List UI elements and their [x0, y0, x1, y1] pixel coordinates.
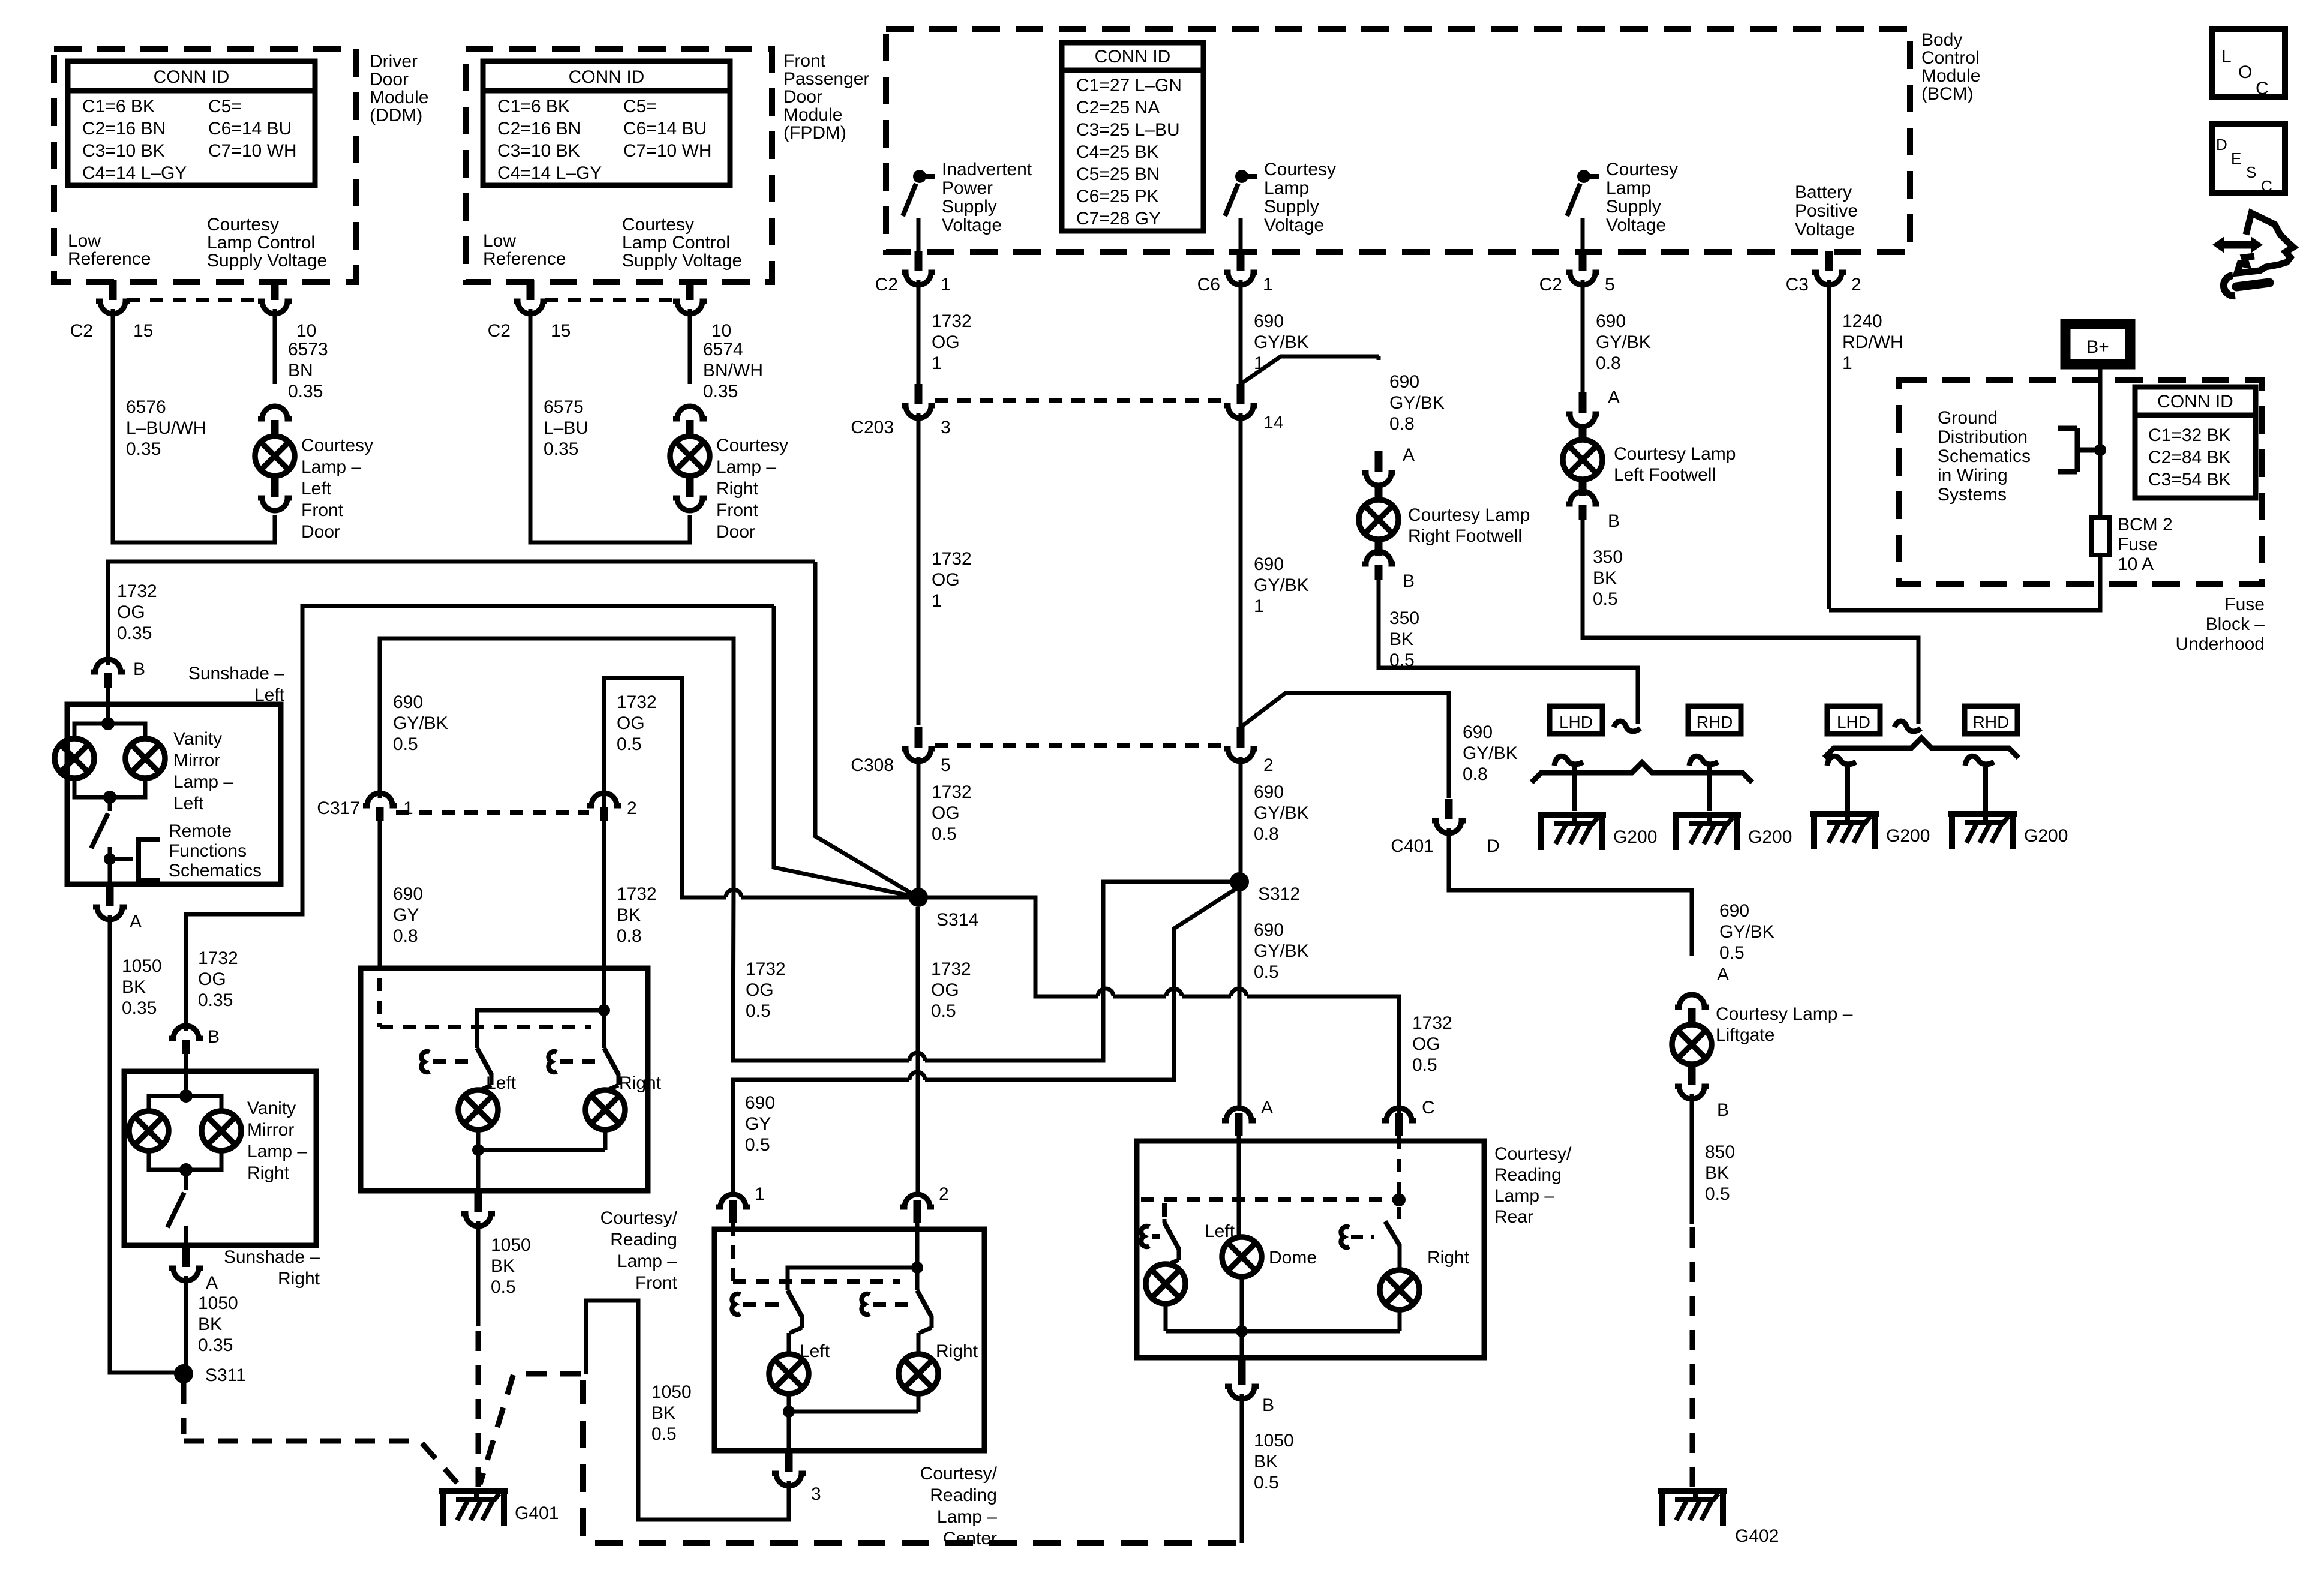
svg-text:C: C — [1422, 1098, 1435, 1118]
svg-text:Power: Power — [942, 178, 993, 198]
ring terminal LHD — [1827, 756, 1856, 766]
fuse BCM 2 10A — [2092, 517, 2109, 555]
rear lamps common rail — [1166, 1329, 1400, 1334]
H2 wire (S312 diagonal to center pin 1) — [925, 887, 1239, 1080]
svg-text:S311: S311 — [205, 1365, 246, 1385]
svg-text:GY/BK: GY/BK — [1254, 332, 1309, 352]
svg-text:L–BU: L–BU — [544, 418, 588, 438]
sunshade right box — [124, 1071, 316, 1245]
svg-text:Courtesy/: Courtesy/ — [920, 1464, 998, 1484]
ring terminal RHD — [1965, 756, 1994, 766]
svg-text:Voltage: Voltage — [1606, 215, 1666, 235]
svg-text:Lamp –: Lamp – — [247, 1142, 307, 1161]
center left switch and lamp — [786, 1287, 790, 1290]
svg-text:0.35: 0.35 — [198, 990, 233, 1010]
svg-text:C6=14 BU: C6=14 BU — [623, 119, 707, 139]
svg-text:Voltage: Voltage — [942, 215, 1002, 235]
svg-text:0.5: 0.5 — [746, 1001, 771, 1021]
svg-text:Front: Front — [783, 51, 826, 71]
BCM pin C6-1 connector — [1224, 272, 1257, 285]
center right switch and lamp — [915, 1287, 920, 1290]
svg-text:Right: Right — [716, 479, 759, 499]
sunshade left box — [67, 704, 281, 884]
rail B (to sunshade right) — [186, 606, 774, 1031]
branch wire 690 GY/BK to right footwell — [1241, 356, 1379, 384]
svg-text:Supply Voltage: Supply Voltage — [207, 251, 327, 271]
svg-text:1732: 1732 — [198, 948, 238, 968]
svg-text:Supply: Supply — [942, 197, 997, 217]
svg-text:Supply Voltage: Supply Voltage — [622, 251, 742, 271]
svg-text:GY/BK: GY/BK — [1719, 922, 1774, 942]
svg-text:BN/WH: BN/WH — [703, 361, 763, 380]
svg-text:2: 2 — [1851, 275, 1861, 295]
svg-text:(DDM): (DDM) — [370, 106, 422, 125]
svg-text:1050: 1050 — [651, 1382, 692, 1402]
svg-text:S314: S314 — [936, 910, 978, 930]
svg-text:L: L — [2221, 47, 2232, 67]
courtesy/reading lamp center box — [714, 1229, 984, 1451]
svg-text:C2=84 BK: C2=84 BK — [2148, 448, 2231, 467]
center box internal feed — [915, 1223, 920, 1287]
svg-text:1: 1 — [1842, 353, 1852, 373]
connector A sunshade left — [106, 887, 114, 901]
svg-text:Lamp –: Lamp – — [173, 772, 233, 792]
svg-text:Remote: Remote — [169, 821, 232, 841]
lamp courtesy lamp left footwell — [1563, 440, 1602, 479]
svg-text:Front: Front — [301, 500, 344, 520]
svg-text:5: 5 — [941, 755, 951, 775]
lamp courtesy lamp liftgate — [1675, 995, 1709, 1007]
svg-text:Courtesy Lamp: Courtesy Lamp — [1614, 444, 1736, 464]
center pin 1 connector — [729, 1200, 737, 1214]
center box output wire — [787, 1412, 791, 1451]
DDM CONN ID table — [68, 61, 315, 185]
svg-text:2: 2 — [1263, 755, 1274, 775]
svg-text:0.5: 0.5 — [745, 1135, 770, 1155]
front right switch and lamp — [602, 1044, 606, 1048]
front box internal feed — [602, 970, 606, 1044]
BCM pin C2-5 connector — [1566, 272, 1599, 285]
connector C308 dashed line — [935, 743, 1224, 748]
rear pin C connector — [1395, 1113, 1403, 1128]
svg-text:1050: 1050 — [198, 1293, 238, 1313]
svg-text:GY: GY — [393, 905, 419, 925]
svg-text:1050: 1050 — [1254, 1431, 1294, 1451]
svg-text:A: A — [1717, 965, 1729, 984]
svg-text:Mirror: Mirror — [247, 1120, 294, 1140]
wire below S314 to center pin 2 — [916, 907, 920, 1197]
courtesy/reading lamp front box — [361, 968, 648, 1191]
svg-text:BK: BK — [1389, 629, 1413, 649]
svg-text:Courtesy: Courtesy — [207, 215, 279, 235]
svg-text:Fuse: Fuse — [2224, 595, 2265, 614]
svg-text:0.5: 0.5 — [931, 1001, 956, 1021]
svg-text:BCM 2: BCM 2 — [2118, 515, 2173, 535]
svg-text:C3=10 BK: C3=10 BK — [82, 141, 165, 161]
wire 690 GY/BK 1 (C6-1 to C203-14) — [1239, 280, 1243, 384]
svg-text:Door: Door — [783, 87, 822, 107]
svg-text:D: D — [1487, 836, 1500, 856]
svg-text:in Wiring: in Wiring — [1938, 466, 2008, 485]
fuse block CONN ID table — [2135, 387, 2256, 498]
svg-text:BK: BK — [1254, 1452, 1278, 1472]
svg-text:A: A — [1403, 445, 1415, 465]
svg-text:0.8: 0.8 — [1254, 824, 1279, 844]
svg-text:C7=28 GY: C7=28 GY — [1076, 209, 1161, 229]
connector C308 pin 5 — [915, 727, 923, 744]
svg-text:Lamp Control: Lamp Control — [207, 233, 315, 253]
svg-text:1: 1 — [1254, 596, 1264, 616]
svg-text:Door: Door — [301, 522, 340, 542]
svg-text:E: E — [2231, 149, 2241, 167]
svg-text:350: 350 — [1593, 547, 1623, 567]
svg-text:Right: Right — [278, 1269, 320, 1289]
svg-text:Front: Front — [716, 500, 759, 520]
rear box linkage dashes — [1397, 1136, 1401, 1194]
wire 1732 OG 0.5 riser from C317-2 — [604, 678, 726, 897]
svg-text:Courtesy: Courtesy — [1606, 160, 1678, 179]
svg-text:OG: OG — [931, 980, 959, 1000]
svg-text:RHD: RHD — [1973, 713, 2010, 731]
svg-text:350: 350 — [1389, 608, 1419, 628]
wire from fuse block to C3-2 — [1829, 555, 2100, 610]
sunshade left switch — [108, 797, 112, 811]
svg-text:Block –: Block – — [2206, 614, 2265, 634]
branch wire 690 GY/BK to C401 — [1241, 693, 1449, 798]
wire 1050 BK 0.35 to S311 — [184, 1276, 188, 1373]
svg-text:B: B — [1403, 571, 1415, 591]
connector C203 dashed line — [935, 398, 1224, 403]
svg-text:1: 1 — [941, 275, 951, 295]
svg-text:Courtesy/: Courtesy/ — [600, 1208, 678, 1228]
rear left switch and lamp — [1163, 1219, 1167, 1223]
svg-text:690: 690 — [1389, 372, 1419, 392]
svg-text:0.35: 0.35 — [703, 382, 738, 401]
connector C317 dashed line — [396, 810, 589, 815]
BCM pin C3-2 connector — [1812, 272, 1846, 285]
svg-text:LHD: LHD — [1559, 713, 1593, 731]
svg-text:Passenger: Passenger — [783, 69, 869, 89]
svg-text:Voltage: Voltage — [1795, 220, 1855, 239]
body control module BCM box — [886, 29, 1910, 252]
svg-text:1: 1 — [403, 798, 413, 818]
connector C317 pin 2 — [587, 793, 621, 806]
BCM pin C2-1 connector — [902, 272, 935, 285]
svg-text:690: 690 — [1719, 901, 1749, 921]
svg-text:Inadvertent: Inadvertent — [942, 160, 1032, 179]
svg-text:Low: Low — [68, 231, 101, 251]
ground G200 d — [1948, 811, 2017, 817]
svg-text:Battery: Battery — [1795, 182, 1852, 202]
svg-text:1732: 1732 — [932, 311, 972, 331]
long dashed wire to G401 — [583, 1380, 1236, 1543]
svg-text:Module: Module — [1921, 66, 1980, 86]
svg-text:C4=25 BK: C4=25 BK — [1076, 142, 1159, 162]
wire 1732 OG 1 (C2-1 to C203-3) — [917, 280, 921, 396]
lamp courtesy lamp left front door — [258, 406, 292, 419]
svg-text:CONN ID: CONN ID — [1095, 47, 1171, 67]
wire 1050 BK 0.5 from center box to G401 — [586, 1301, 789, 1520]
svg-text:0.5: 0.5 — [1593, 589, 1618, 609]
svg-text:B+: B+ — [2086, 337, 2109, 357]
front lamps common rail — [472, 1144, 484, 1156]
svg-text:C6: C6 — [1197, 275, 1220, 295]
svg-text:OG: OG — [617, 713, 645, 733]
svg-text:Supply: Supply — [1606, 197, 1661, 217]
wire 1732 BK 0.8 (C317-2 into front lamp box) — [602, 821, 606, 970]
ground G401 — [439, 1488, 508, 1494]
vanity mirror lamp left pair — [101, 717, 115, 730]
svg-text:Schematics: Schematics — [1938, 446, 2031, 466]
svg-text:B: B — [133, 659, 145, 679]
svg-text:G200: G200 — [2024, 826, 2068, 846]
wire 1050 BK 0.35 down to S311 — [110, 915, 184, 1373]
svg-text:C: C — [2256, 79, 2269, 98]
svg-text:Right Footwell: Right Footwell — [1408, 526, 1522, 546]
svg-text:C308: C308 — [851, 755, 894, 775]
svg-text:C4=14 L–GY: C4=14 L–GY — [82, 163, 187, 183]
hops on H1 — [909, 1053, 925, 1061]
svg-text:C7=10 WH: C7=10 WH — [623, 141, 712, 161]
vertical from rail B into S314 — [774, 606, 918, 897]
svg-text:G200: G200 — [1613, 827, 1657, 847]
svg-text:6573: 6573 — [288, 340, 328, 359]
svg-text:690: 690 — [1254, 920, 1284, 940]
svg-text:0.5: 0.5 — [1254, 962, 1279, 982]
svg-text:690: 690 — [1254, 782, 1284, 802]
svg-text:690: 690 — [393, 884, 423, 904]
rear pin A connector — [1235, 1113, 1243, 1128]
connector A sunshade right — [182, 1248, 190, 1262]
svg-text:14: 14 — [1263, 413, 1283, 433]
svg-text:1050: 1050 — [491, 1235, 531, 1255]
svg-text:CONN ID: CONN ID — [2157, 392, 2233, 412]
svg-text:C: C — [2261, 177, 2272, 195]
wire 690 GY/BK 1 (C203-14 to C308-2) — [1239, 413, 1243, 727]
svg-text:GY/BK: GY/BK — [393, 713, 448, 733]
svg-text:0.35: 0.35 — [198, 1335, 233, 1355]
svg-text:C317: C317 — [317, 798, 360, 818]
wire 690 GY/BK 0.8 (C308-2 to S312) — [1239, 757, 1243, 882]
left footwell feed 690 GY/BK 0.8 — [1581, 280, 1585, 396]
ground G200 c — [1810, 811, 1879, 817]
svg-text:Left: Left — [1205, 1221, 1235, 1241]
BCM inadvertent power switch — [913, 170, 926, 183]
LOC icon — [2212, 29, 2285, 97]
svg-text:1240: 1240 — [1842, 311, 1882, 331]
rail A 1732 OG 0.35 (to sunshade left) — [108, 562, 815, 665]
svg-text:Fuse: Fuse — [2118, 535, 2158, 554]
svg-text:3: 3 — [941, 418, 951, 437]
svg-text:Lamp: Lamp — [1264, 178, 1309, 198]
svg-text:Vanity: Vanity — [247, 1098, 296, 1118]
svg-text:10 A: 10 A — [2118, 554, 2154, 574]
lamp courtesy lamp right footwell — [1359, 500, 1398, 539]
courtesy/reading lamp rear box — [1137, 1141, 1484, 1358]
svg-text:Driver: Driver — [370, 52, 418, 71]
svg-text:GY: GY — [745, 1114, 771, 1134]
ground G402 — [1658, 1488, 1727, 1494]
front passenger door module FPDM box — [466, 49, 772, 282]
svg-text:15: 15 — [551, 321, 571, 341]
wire 850 BK 0.5 — [1690, 1094, 1694, 1224]
driver door module DDM box — [54, 49, 356, 282]
svg-text:690: 690 — [1254, 311, 1284, 331]
svg-text:BN: BN — [288, 361, 313, 380]
svg-text:CONN ID: CONN ID — [154, 67, 230, 87]
svg-text:Module: Module — [370, 88, 428, 107]
svg-text:Lamp –: Lamp – — [716, 457, 776, 477]
svg-text:B: B — [1608, 511, 1620, 531]
svg-text:GY/BK: GY/BK — [1389, 393, 1445, 413]
svg-text:1732: 1732 — [932, 782, 972, 802]
svg-text:Functions: Functions — [169, 841, 247, 861]
svg-text:GY/BK: GY/BK — [1254, 575, 1309, 595]
svg-text:1: 1 — [755, 1184, 765, 1204]
front left switch and lamp — [475, 1044, 479, 1048]
svg-text:OG: OG — [1412, 1034, 1440, 1054]
svg-text:2: 2 — [627, 798, 637, 818]
svg-text:0.5: 0.5 — [651, 1424, 677, 1444]
svg-text:C1=27 L–GN: C1=27 L–GN — [1076, 76, 1182, 95]
svg-text:Right: Right — [936, 1341, 978, 1361]
dashed wire to G402 — [1690, 1227, 1695, 1489]
svg-text:L–BU/WH: L–BU/WH — [126, 418, 206, 438]
svg-text:Front: Front — [635, 1273, 678, 1293]
svg-text:C5=: C5= — [208, 97, 242, 116]
wire end curl — [1614, 721, 1640, 731]
svg-text:Left: Left — [486, 1073, 517, 1093]
svg-text:GY/BK: GY/BK — [1596, 332, 1651, 352]
hops on 1661 rail — [1098, 989, 1113, 996]
svg-text:(FPDM): (FPDM) — [783, 123, 846, 143]
svg-text:Low: Low — [483, 231, 516, 251]
svg-text:B: B — [208, 1027, 220, 1047]
svg-text:G402: G402 — [1735, 1526, 1779, 1546]
svg-text:10: 10 — [296, 321, 316, 341]
svg-text:0.35: 0.35 — [544, 439, 578, 459]
svg-text:Voltage: Voltage — [1264, 215, 1324, 235]
svg-text:690: 690 — [1596, 311, 1626, 331]
svg-text:Reference: Reference — [483, 249, 566, 269]
svg-text:A: A — [206, 1273, 218, 1293]
svg-text:0.35: 0.35 — [288, 382, 323, 401]
svg-text:1732: 1732 — [931, 959, 971, 979]
svg-text:Right: Right — [619, 1073, 662, 1093]
svg-text:C5=25 BN: C5=25 BN — [1076, 164, 1160, 184]
svg-text:GY/BK: GY/BK — [1254, 803, 1309, 823]
DDM C2 pin 15 connector — [109, 280, 117, 296]
svg-text:0.5: 0.5 — [393, 734, 418, 754]
lamp courtesy lamp right front door — [673, 406, 707, 419]
svg-text:1732: 1732 — [932, 549, 972, 569]
DDM connector C2 dashed line — [127, 298, 260, 302]
H1 wire (V1 to S312 riser) — [733, 889, 909, 1061]
svg-text:OG: OG — [198, 969, 226, 989]
left footwell A connector — [1579, 392, 1587, 409]
svg-text:0.5: 0.5 — [1705, 1184, 1730, 1204]
svg-text:C1=6 BK: C1=6 BK — [82, 97, 155, 116]
arrow and wrench icon — [2212, 236, 2263, 253]
svg-text:0.8: 0.8 — [617, 926, 642, 946]
svg-text:1732: 1732 — [617, 692, 657, 712]
svg-text:0.8: 0.8 — [393, 926, 418, 946]
svg-text:Control: Control — [1921, 48, 1980, 68]
svg-text:Lamp –: Lamp – — [617, 1251, 677, 1271]
fuse block dashed box — [1899, 380, 2262, 584]
svg-text:BK: BK — [1705, 1163, 1729, 1183]
svg-text:Rear: Rear — [1494, 1207, 1533, 1227]
svg-text:690: 690 — [393, 692, 423, 712]
svg-text:(BCM): (BCM) — [1921, 84, 1974, 104]
svg-text:0.35: 0.35 — [117, 623, 152, 643]
svg-text:Mirror: Mirror — [173, 751, 220, 770]
connector C203 pin 14 — [1237, 384, 1245, 401]
svg-text:C2: C2 — [875, 275, 898, 295]
svg-text:C1=32 BK: C1=32 BK — [2148, 425, 2231, 445]
svg-text:690: 690 — [745, 1093, 775, 1113]
sunshade right switch — [184, 1170, 188, 1190]
wire 690 GY 0.8 (C317-1 into front lamp box) — [378, 821, 382, 968]
svg-text:0.8: 0.8 — [1389, 414, 1415, 434]
svg-text:C6=14 BU: C6=14 BU — [208, 119, 292, 139]
wire end curl — [1894, 721, 1921, 731]
connector C308 pin 2 — [1237, 727, 1245, 744]
svg-text:Module: Module — [783, 105, 842, 125]
svg-text:Ground: Ground — [1938, 408, 1998, 428]
dashed wire S311 to G401 — [184, 1383, 457, 1483]
BCM CONN ID table — [1062, 43, 1203, 231]
svg-text:Courtesy: Courtesy — [301, 436, 373, 455]
svg-text:OG: OG — [117, 602, 145, 622]
DESC icon — [2212, 124, 2285, 193]
RHD box — [1688, 706, 1741, 734]
wire 1732 OG 1 (C203-3 to C308-5) — [917, 413, 921, 725]
vertical from rail A into S314 — [815, 562, 918, 897]
svg-text:C1=6 BK: C1=6 BK — [497, 97, 570, 116]
svg-text:Left: Left — [301, 479, 332, 499]
remote functions tap — [110, 839, 160, 880]
svg-text:0.5: 0.5 — [617, 734, 642, 754]
svg-text:10: 10 — [711, 321, 731, 341]
rear right switch and lamp — [1385, 1221, 1400, 1245]
vanity mirror lamp right pair — [179, 1089, 193, 1103]
svg-text:Vanity: Vanity — [173, 729, 222, 749]
svg-text:OG: OG — [932, 803, 960, 823]
center box linkage dashes — [733, 1223, 900, 1281]
svg-text:0.8: 0.8 — [1463, 764, 1488, 784]
svg-text:G401: G401 — [515, 1503, 559, 1523]
DDM C2 pin 10 connector — [271, 280, 279, 296]
svg-text:G200: G200 — [1886, 826, 1930, 846]
ring terminal RHD — [1689, 756, 1718, 766]
svg-text:0.5: 0.5 — [1412, 1055, 1437, 1075]
svg-text:Courtesy: Courtesy — [622, 215, 694, 235]
svg-text:15: 15 — [133, 321, 153, 341]
front box linkage dashes — [380, 978, 591, 1027]
wire 6573 BN — [273, 309, 277, 384]
rail C 690 GY/BK (C317-1 riser) — [380, 638, 734, 889]
svg-text:C2=25 NA: C2=25 NA — [1076, 98, 1160, 118]
svg-text:CONN ID: CONN ID — [569, 67, 645, 87]
svg-text:Dome: Dome — [1269, 1248, 1317, 1268]
splice S314 — [909, 888, 928, 907]
svg-text:C3: C3 — [1786, 275, 1809, 295]
lamp dome — [1222, 1237, 1262, 1277]
dashed wire front box to G401 — [476, 1331, 481, 1487]
svg-text:Reference: Reference — [68, 249, 151, 269]
svg-text:Reading: Reading — [930, 1485, 997, 1505]
